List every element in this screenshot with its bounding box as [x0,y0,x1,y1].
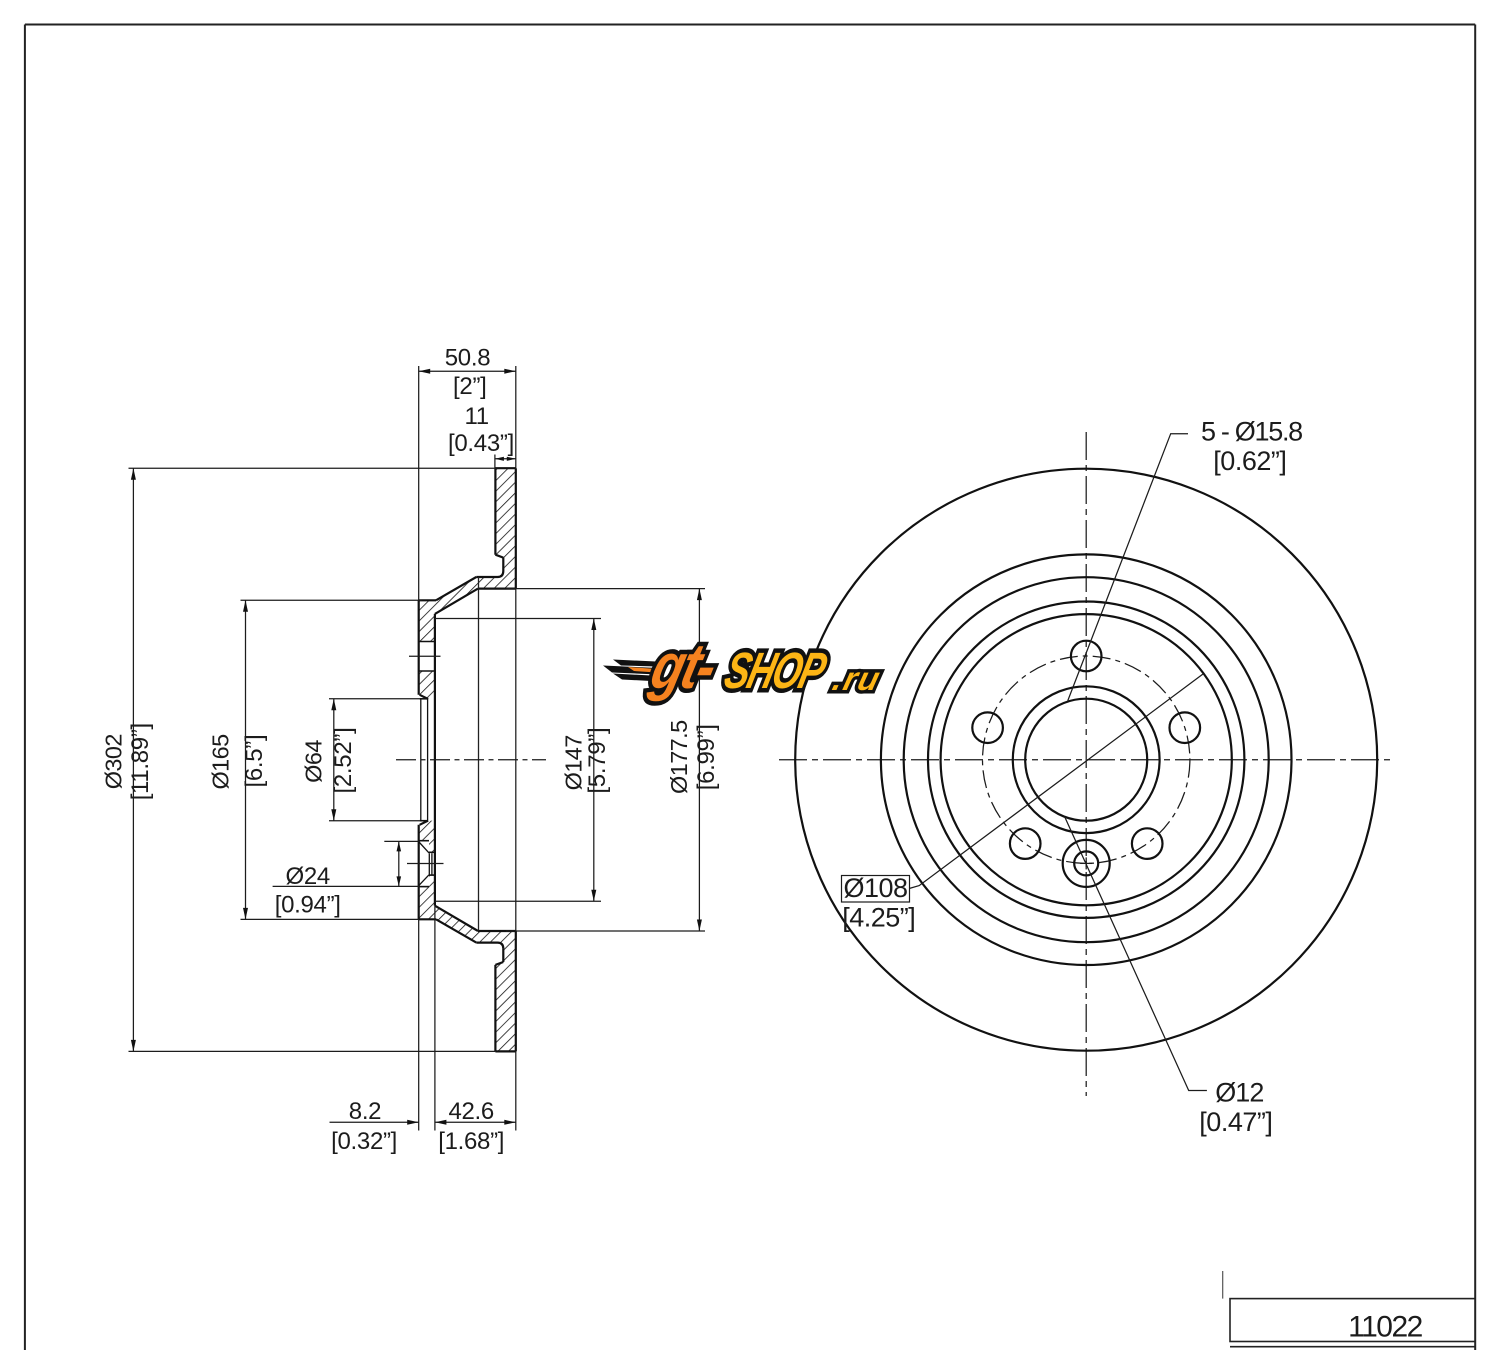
svg-text:Ø165: Ø165 [208,734,234,790]
logo text gt- [644,630,724,702]
svg-text:[6.5”]: [6.5”] [241,735,268,788]
svg-text:[5.79”]: [5.79”] [584,728,611,794]
pin hole centerline (section) [407,863,444,865]
svg-text:Ø108: Ø108 [843,873,907,903]
dim O147 [435,618,601,620]
svg-text:[2”]: [2”] [453,373,486,400]
logo text ShOP [719,642,833,699]
svg-text:50.8: 50.8 [445,345,491,372]
svg-text:11: 11 [465,403,489,430]
svg-text:[0.94”]: [0.94”] [275,892,341,919]
svg-text:.ru: .ru [829,661,885,697]
svg-text:[6.99”]: [6.99”] [693,724,720,790]
svg-text:SHOP: SHOP [719,642,833,699]
logo text .ru [829,661,885,697]
section view hatched body bottom half [419,821,516,1052]
leader O108 [910,674,1203,888]
svg-text:[0.62”]: [0.62”] [1213,446,1286,476]
dim O177.5 [506,588,705,590]
hat wall fillets [498,571,504,577]
dim O302 [129,467,496,469]
disc braking band outline [495,467,515,469]
hat wall surfaces [476,576,497,578]
dim 8.2 [330,1121,419,1123]
leader 5-O15.8 [1068,434,1188,701]
hub chamfer circle [1013,686,1160,833]
hat inner edge silhouette [478,577,480,931]
svg-text:[2.52”]: [2.52”] [330,728,357,794]
svg-text:[1.68”]: [1.68”] [438,1128,504,1155]
front view horizontal centerline [779,759,1392,761]
dim O165 [241,599,422,601]
flange faces [419,599,436,601]
circle [904,577,1269,942]
pin hole O12 slot (section) [429,852,436,875]
circle O147 [941,614,1232,905]
outer edge O302 [795,469,1377,1051]
svg-text:5 - Ø15.8: 5 - Ø15.8 [1201,417,1302,447]
svg-text:Ø302: Ø302 [101,734,127,789]
logo speed spikes [613,660,656,667]
dim 11 [495,458,516,460]
circle [881,554,1292,965]
front view vertical centerline [1085,432,1087,1096]
gt-shop.ru logo [603,630,885,702]
pin hole O12 [1074,851,1098,875]
leader O12 [1065,817,1207,1090]
svg-text:Ø147: Ø147 [561,735,587,790]
dim 50.8 [419,370,516,372]
bolt hole slot (section) [418,642,437,672]
bolt circle O108 [982,656,1189,863]
hub bore O64 chamfers and surfaces [420,695,429,699]
bolt hole edges (section) [419,641,435,643]
bolt holes O15.8 [1071,641,1102,672]
svg-text:Ø24: Ø24 [285,863,329,890]
svg-text:8.2: 8.2 [349,1098,381,1125]
dim 42.6 [435,1121,516,1123]
pin hole O24 slot (section) [418,841,430,887]
section centerline [396,759,546,761]
svg-text:11022: 11022 [1348,1311,1423,1344]
title block [1230,1299,1475,1342]
circle O165 [928,602,1244,918]
section view hatched body top half [419,468,516,699]
svg-text:[11.89”]: [11.89”] [127,723,154,800]
dim O64 [329,698,420,700]
border frame [24,25,26,1350]
hub bore O64 [1025,699,1147,821]
svg-text:Ø12: Ø12 [1215,1078,1263,1108]
svg-text:Ø177.5: Ø177.5 [666,720,692,794]
svg-text:Ø64: Ø64 [301,740,327,783]
svg-text:[4.25”]: [4.25”] [842,903,915,933]
pin hole O24 counterbore [1063,840,1110,887]
svg-text:[0.43”]: [0.43”] [448,430,514,457]
svg-text:[0.32”]: [0.32”] [331,1128,397,1155]
extension lines [418,366,420,600]
svg-text:42.6: 42.6 [448,1098,494,1125]
pin hole edges (section) [419,840,429,842]
bolt hole centerline (section) [409,655,441,657]
dim O24 [384,840,418,842]
svg-text:[0.47”]: [0.47”] [1199,1107,1272,1137]
